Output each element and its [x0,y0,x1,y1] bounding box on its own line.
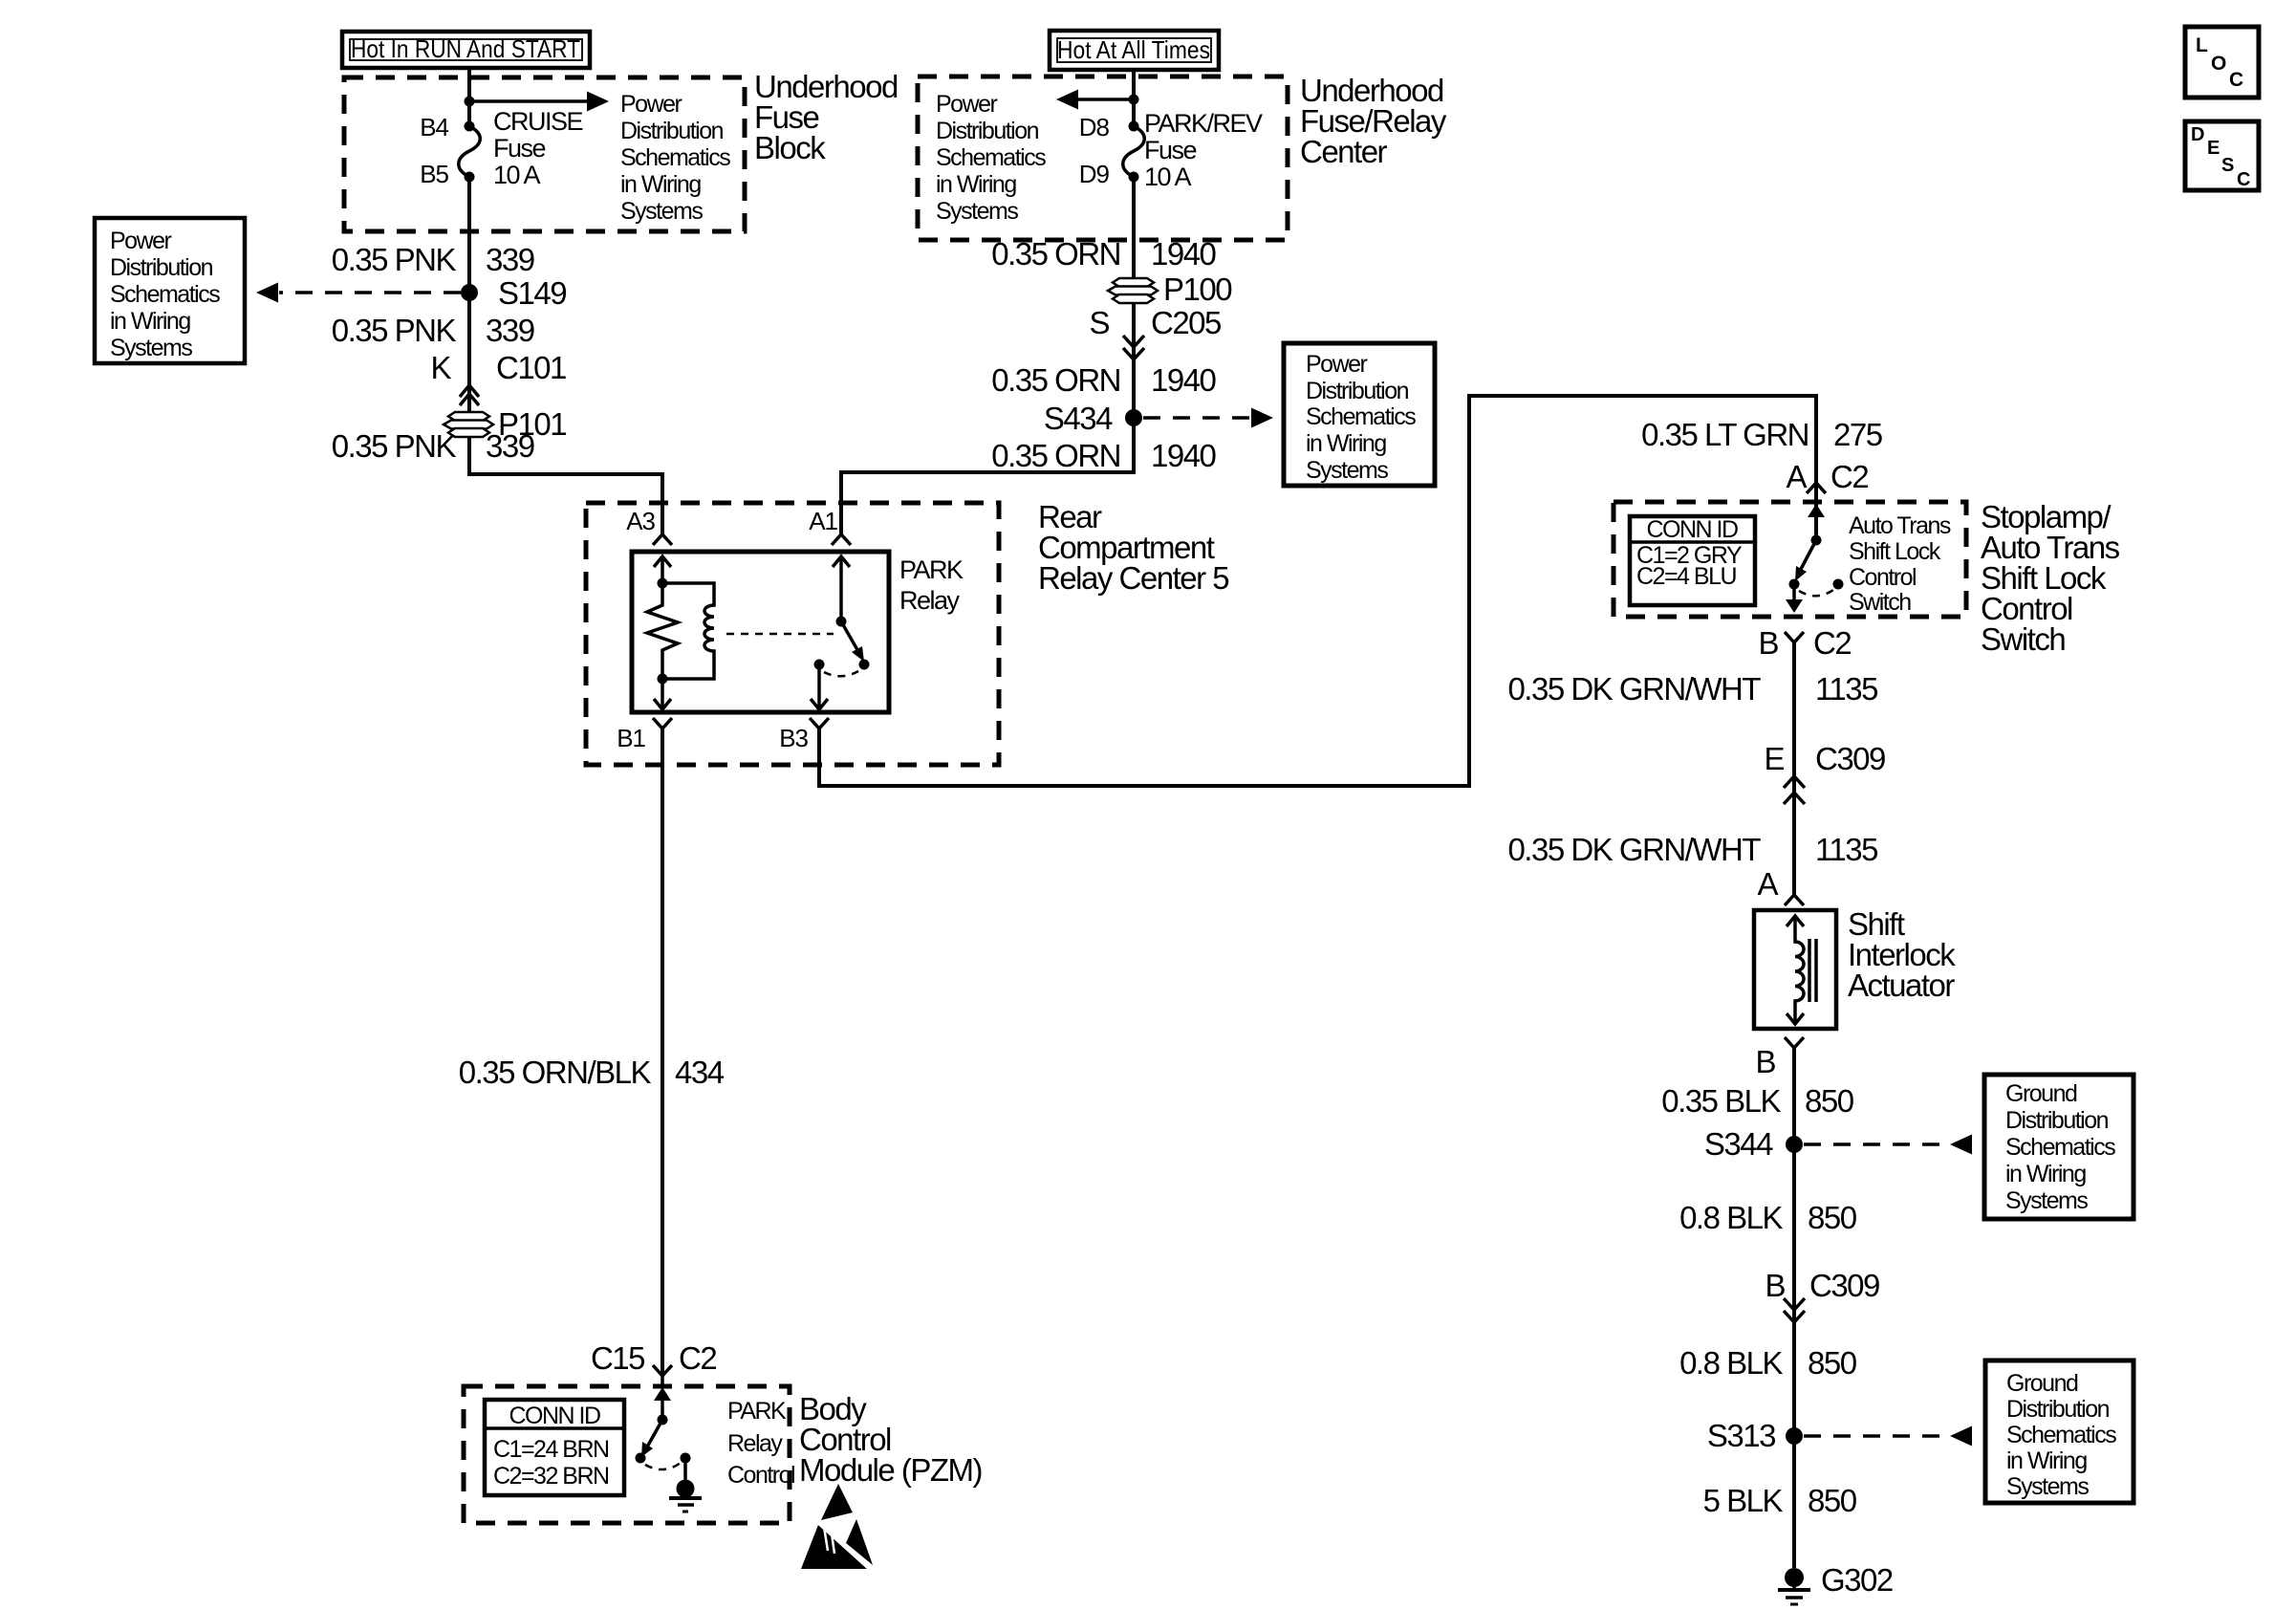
pin K connector C101 [430,350,566,385]
BCM switch dashed arc to ground contact [645,1463,681,1469]
power label Hot At All Times [1050,31,1219,70]
svg-text:0.35 ORN: 0.35 ORN [991,236,1120,272]
svg-text:in Wiring: in Wiring [110,308,190,335]
connector P100 grommet [1108,272,1232,307]
svg-text:850: 850 [1808,1483,1857,1518]
svg-text:S: S [1089,305,1109,340]
svg-text:850: 850 [1805,1083,1854,1119]
svg-text:Hot In RUN And START: Hot In RUN And START [351,34,580,63]
connector chevron B3 [810,718,829,729]
svg-text:Switch: Switch [1849,589,1911,616]
svg-text:339: 339 [486,242,534,277]
pin S connector C205 [1089,305,1221,340]
svg-text:850: 850 [1808,1200,1857,1235]
svg-text:B: B [1755,1044,1775,1079]
svg-text:Fuse: Fuse [493,134,546,163]
BCM switch open contact node [636,1453,646,1464]
svg-text:in Wiring: in Wiring [936,171,1016,198]
relay coil bottom node [658,674,668,685]
svg-text:C1=24 BRN: C1=24 BRN [493,1436,609,1463]
svg-text:Systems: Systems [110,335,192,361]
pin C15 connector C2 (BCM) [591,1340,716,1376]
svg-text:Control: Control [727,1462,794,1489]
svg-text:S149: S149 [498,275,566,311]
splice S434 [1044,401,1142,436]
pin A3 [626,507,655,535]
connector C309 chevrons (E) [1784,776,1805,804]
pin A1 [809,507,837,535]
wire from Hot At All Times to PARK/REV fuse [1132,70,1136,126]
connector chevron B (actuator) [1785,1037,1804,1048]
connector chevron A1 [832,534,851,545]
splice S149 [461,275,566,311]
annotation Power Distribution Schematics in Wiring Systems (fuse/relay center) [936,91,1046,225]
shift interlock actuator box [1754,910,1836,1029]
pin E connector C309 [1764,741,1885,776]
svg-text:C: C [2237,169,2250,190]
svg-text:Block: Block [754,130,826,165]
connector chevron C15 C2 [653,1365,672,1386]
pin B connector C309 (lower) [1765,1268,1879,1303]
svg-text:0.35 BLK: 0.35 BLK [1661,1083,1781,1119]
svg-text:Relay: Relay [899,586,961,615]
pin B5 [420,160,448,188]
svg-text:C15: C15 [591,1340,644,1376]
svg-text:Distribution: Distribution [1306,378,1409,404]
connector chevron A3 [653,534,672,545]
svg-text:1940: 1940 [1151,236,1217,272]
svg-text:CRUISE: CRUISE [493,107,583,136]
svg-text:C101: C101 [496,350,566,385]
svg-text:0.35 LT GRN: 0.35 LT GRN [1641,417,1809,452]
svg-text:Schematics: Schematics [936,144,1046,171]
wire label 0.35 PNK 339 (below S149) [332,313,534,348]
svg-text:in Wiring: in Wiring [1306,430,1386,457]
component label Shift Interlock Actuator [1848,906,1956,1003]
component label Stoplamp/Auto Trans Shift Lock Control Switch [1981,499,2120,657]
svg-text:1135: 1135 [1815,832,1877,867]
svg-text:in Wiring: in Wiring [2006,1447,2087,1474]
switch contact arm from pin A [1795,504,1825,581]
svg-text:C2=32 BRN: C2=32 BRN [493,1463,609,1490]
svg-text:Power: Power [110,228,172,254]
svg-text:L: L [2196,34,2208,56]
connector chevron B C2 [1785,632,1804,642]
svg-text:Shift Lock: Shift Lock [1849,538,1941,565]
reference box Ground Distribution Schematics in Wiring Systems (upper) [1984,1075,2134,1219]
svg-text:PARK/REV: PARK/REV [1144,109,1263,138]
connector C309 chevrons (B) [1784,1298,1805,1322]
CONN ID table (switch) [1630,516,1755,605]
svg-text:Power: Power [620,91,682,118]
pin D9 [1079,160,1110,188]
svg-text:0.35 PNK: 0.35 PNK [332,313,457,348]
wire label 0.8 BLK 850 (above C309) [1679,1200,1857,1235]
svg-text:Schematics: Schematics [2006,1422,2116,1448]
wire 0.35 DK GRN/WHT 1135 from switch to actuator [1792,642,1796,897]
svg-text:Schematics: Schematics [110,281,220,308]
switch wire to pin B with arrow [1786,584,1803,613]
BCM park relay control switch arm [641,1387,671,1457]
wire label 0.35 ORN 1940 (above S434) [991,362,1216,398]
splice S344 [1704,1126,1803,1162]
svg-text:P100: P100 [1163,272,1232,307]
actuator solenoid coil [1787,916,1816,1024]
connector chevron A (actuator) [1785,895,1804,905]
wire label 0.35 BLK 850 [1661,1083,1853,1119]
svg-text:1940: 1940 [1151,362,1217,398]
svg-text:CONN ID: CONN ID [1646,516,1738,543]
svg-text:Module (PZM): Module (PZM) [799,1452,982,1488]
svg-text:Distribution: Distribution [936,118,1039,144]
reference box Ground Distribution Schematics in Wiring Systems (lower) [1985,1360,2134,1503]
power label Hot In RUN And START [342,32,590,68]
svg-text:A: A [1786,459,1807,494]
svg-text:B: B [1758,625,1778,661]
svg-text:Relay: Relay [727,1430,783,1457]
wire label 0.35 ORN/BLK 434 [459,1055,725,1090]
svg-text:1940: 1940 [1151,438,1217,473]
svg-text:Schematics: Schematics [620,144,730,171]
relay switch pin A1 arrow [833,556,850,621]
node junction to power distribution arrow [465,97,475,107]
relay coil pin B1 arrow [654,679,671,709]
svg-text:D: D [2191,124,2204,145]
svg-text:0.35 PNK: 0.35 PNK [332,428,457,464]
wire label 0.35 DK GRN/WHT 1135 (above C309) [1507,671,1877,707]
dashed reference arrow from S149 to Power Distribution box [256,283,461,303]
svg-text:PARK: PARK [727,1398,787,1425]
svg-text:S434: S434 [1044,401,1113,436]
relay switch fixed contact to pin B3 [811,660,828,710]
reference tab DESC [2185,121,2259,190]
pin B connector C2 (switch bottom) [1758,625,1851,661]
wire 0.35 ORN 1940 down through P100 C205 S434 [841,177,1134,534]
reference box Power Distribution Schematics in Wiring Systems (left) [95,218,245,363]
reference tab LOC [2185,27,2259,98]
svg-text:B5: B5 [420,160,448,188]
switch alternate position dashed arc [1799,590,1833,596]
svg-text:D8: D8 [1079,113,1110,141]
svg-text:Schematics: Schematics [2005,1134,2115,1161]
svg-text:0.35 DK GRN/WHT: 0.35 DK GRN/WHT [1507,671,1761,707]
dashed reference arrow from S313 to Ground Distribution box [1804,1426,1972,1447]
svg-text:Schematics: Schematics [1306,403,1416,430]
svg-text:O: O [2211,53,2226,75]
dashed reference arrow from S344 to Ground Distribution box [1804,1135,1972,1155]
svg-text:Ground: Ground [2005,1080,2077,1107]
svg-text:G302: G302 [1821,1562,1893,1598]
svg-text:275: 275 [1833,417,1882,452]
pin B4 [420,113,448,141]
svg-text:S344: S344 [1704,1126,1773,1162]
wire label 0.35 PNK 339 (above S149) [332,242,534,277]
connector P101 grommet [444,406,566,442]
annotation Auto Trans Shift Lock Control Switch [1849,512,1951,616]
annotation PARK Relay Control [727,1398,794,1489]
svg-text:Systems: Systems [2006,1473,2089,1500]
component label PARK Relay [899,555,964,615]
svg-text:Systems: Systems [620,198,703,225]
svg-text:in Wiring: in Wiring [2005,1161,2086,1187]
node junction to power distribution arrow (right) [1129,95,1139,105]
wire 0.35 LT GRN 275 from B3 to stoplamp switch [819,396,1816,786]
wire label 0.8 BLK 850 (below C309) [1679,1345,1857,1381]
ESD sensitive symbol [801,1484,874,1572]
annotation Power Distribution Schematics in Wiring Systems (fuse block) [620,91,730,225]
rear compartment relay center dashed box [586,503,999,765]
relay switch pivot node [836,617,847,627]
svg-text:Systems: Systems [1306,457,1388,484]
svg-text:0.35 ORN: 0.35 ORN [991,362,1120,398]
wire label 0.35 ORN 1940 (below S434) [991,438,1216,473]
underhood fuse/relay center dashed box [918,76,1288,240]
svg-text:C2: C2 [1830,459,1868,494]
svg-text:S313: S313 [1707,1418,1775,1453]
svg-text:A: A [1757,866,1778,902]
wire label 0.35 DK GRN/WHT 1135 (below C309) [1507,832,1877,867]
wire 0.35 BLK 850 from actuator to G302 [1792,1048,1796,1568]
svg-text:Actuator: Actuator [1848,968,1955,1003]
pin A (actuator) [1757,866,1778,902]
svg-text:C2=4 BLU: C2=4 BLU [1636,563,1736,590]
svg-text:Control: Control [1849,564,1916,591]
svg-text:E: E [1764,741,1784,776]
BCM internal ground [669,1453,702,1512]
svg-text:B1: B1 [617,724,645,752]
wire label 0.35 LT GRN 275 [1641,417,1882,452]
svg-text:0.35 PNK: 0.35 PNK [332,242,457,277]
splice S313 [1707,1418,1803,1453]
svg-text:0.8 BLK: 0.8 BLK [1679,1345,1783,1381]
fuse CRUISE Fuse 10 A [459,121,481,183]
svg-text:A1: A1 [809,507,837,535]
fuse PARK/REV Fuse 10 A [1123,121,1145,183]
svg-text:Switch: Switch [1981,621,2065,657]
svg-text:S: S [2221,155,2234,176]
switch lower contact node [1789,579,1800,590]
relay switch dashed arc [824,671,858,676]
connector C101 chevrons [460,385,479,405]
svg-text:B3: B3 [779,724,808,752]
svg-text:Power: Power [936,91,998,118]
relay box PARK Relay [632,552,889,712]
wire 0.35 PNK 339 from fuse to S149 and down through C101 P101 [469,177,662,534]
svg-text:Hot At All Times: Hot At All Times [1057,35,1210,64]
svg-text:339: 339 [486,428,534,464]
body control module dashed box [464,1386,790,1523]
svg-text:339: 339 [486,313,534,348]
svg-text:Systems: Systems [936,198,1018,225]
svg-text:Ground: Ground [2006,1370,2078,1397]
relay coil [662,583,714,679]
svg-text:Relay Center 5: Relay Center 5 [1038,560,1228,596]
svg-text:C2: C2 [1813,625,1851,661]
ground G302 [1778,1562,1893,1604]
svg-text:C309: C309 [1809,1268,1879,1303]
svg-text:CONN ID: CONN ID [509,1403,600,1429]
svg-text:C309: C309 [1815,741,1885,776]
component label Underhood Fuse Block [754,69,898,165]
relay actuation dashed link [726,633,834,636]
svg-text:Systems: Systems [2005,1187,2088,1214]
wire 0.35 ORN/BLK 434 from relay B1 to BCM [661,729,664,1375]
pin B3 [779,724,808,752]
stoplamp switch dashed box [1614,502,1966,617]
svg-text:Distribution: Distribution [2005,1107,2109,1134]
svg-text:0.35 ORN: 0.35 ORN [991,438,1120,473]
svg-text:in Wiring: in Wiring [620,171,701,198]
relay resistor [647,583,678,679]
value label CRUISE Fuse 10 A [493,107,583,189]
svg-text:C205: C205 [1151,305,1221,340]
dashed reference arrow from S434 to Power Distribution box (right) [1143,408,1273,428]
pin A connector C2 (switch top) [1786,459,1868,494]
connector chevron B1 [653,718,672,729]
component label Rear Compartment Relay Center 5 [1038,499,1228,596]
wire arrow to Power Distribution Schematics (pointing left) [1056,90,1134,110]
wire label 0.35 ORN 1940 (above P100) [991,236,1216,272]
svg-text:850: 850 [1808,1345,1857,1381]
component label Body Control Module (PZM) [799,1391,982,1488]
pin B (actuator) [1755,1044,1775,1079]
svg-text:434: 434 [675,1055,725,1090]
svg-text:Distribution: Distribution [2006,1396,2110,1423]
switch alternate contact node [1833,579,1844,590]
wire label 5 BLK 850 [1703,1483,1857,1518]
svg-text:10 A: 10 A [1144,163,1192,191]
svg-text:10 A: 10 A [493,161,541,189]
relay switch movable arm [841,621,870,670]
svg-text:B4: B4 [420,113,448,141]
relay coil top node [658,578,668,589]
svg-text:0.8 BLK: 0.8 BLK [1679,1200,1783,1235]
svg-text:K: K [430,350,451,385]
svg-text:C2: C2 [679,1340,716,1376]
svg-text:Fuse: Fuse [1144,136,1197,164]
svg-text:C: C [2229,69,2243,91]
svg-text:Distribution: Distribution [110,254,213,281]
relay coil pin A3 arrow [654,556,671,583]
wire from Hot In RUN And START to CRUISE fuse [467,68,471,126]
svg-text:1135: 1135 [1815,671,1877,707]
svg-text:Power: Power [1306,351,1368,378]
component label Underhood Fuse/Relay Center [1300,73,1447,169]
pin B1 [617,724,645,752]
svg-text:PARK: PARK [899,555,964,584]
wire label 0.35 PNK 339 (below P101) [332,428,534,464]
underhood fuse block dashed box [344,77,745,231]
svg-text:A3: A3 [626,507,655,535]
svg-text:Distribution: Distribution [620,118,724,144]
svg-text:E: E [2207,138,2220,159]
svg-text:0.35 ORN/BLK: 0.35 ORN/BLK [459,1055,652,1090]
wire arrow to Power Distribution Schematics [469,92,609,112]
connector C205 chevrons [1123,336,1144,359]
connector chevron A C2 [1807,483,1826,493]
svg-text:D9: D9 [1079,160,1110,188]
svg-text:5 BLK: 5 BLK [1703,1483,1784,1518]
value label PARK/REV Fuse 10 A [1144,109,1263,191]
svg-text:B: B [1765,1268,1785,1303]
svg-text:Center: Center [1300,134,1388,169]
svg-text:Auto Trans: Auto Trans [1849,512,1951,539]
CONN ID table (BCM) [485,1400,624,1495]
reference box Power Distribution Schematics in Wiring Systems (right) [1284,343,1435,486]
pin D8 [1079,113,1110,141]
svg-text:0.35 DK GRN/WHT: 0.35 DK GRN/WHT [1507,832,1761,867]
